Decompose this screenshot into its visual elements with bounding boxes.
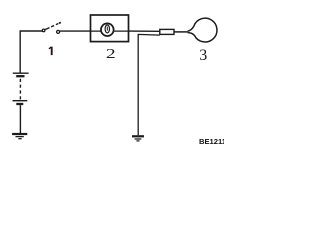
wire from sleeve to bulb 3 [174, 31, 188, 33]
connector sleeve on bulb 3 lead [160, 29, 174, 34]
svg-text:BE1211: BE1211 [199, 137, 224, 146]
ground (battery side) bar 2 [16, 136, 24, 138]
ground (battery side) bar 3 [18, 138, 21, 140]
switch 1 blade tip [59, 21, 61, 24]
label 1 (switch) : drawn glyph, stem [51, 47, 53, 55]
lamp 2 filament loop [105, 25, 109, 33]
wire through housing [91, 30, 129, 32]
wire from housing 2 to connector sleeve [129, 30, 160, 32]
ground (battery side) bar 1 [12, 133, 27, 135]
switch 1 blade (solid root segment) [45, 28, 49, 30]
lamp 2 filament inner mark [106, 27, 108, 31]
switch 1 left contact [42, 29, 45, 32]
wire from switch to lamp housing 2 [60, 30, 91, 32]
battery B dashed middle (omitted cells) [19, 79, 21, 100]
switch 1 right contact [57, 30, 60, 33]
svg-text:2: 2 [106, 46, 116, 62]
battery B plate short thick (cell 1 -) [16, 75, 24, 77]
wire from battery negative to ground [19, 105, 21, 133]
ground branch wire: corner, runs to sleeve and down to ground [138, 34, 160, 135]
battery B plate long (cell 1 +) [13, 72, 29, 74]
battery B plate long (cell 2 +) [13, 100, 28, 102]
ground (lamp side) bar 3 [136, 140, 139, 142]
bulb 3 ball with open neck [188, 18, 217, 42]
ground (lamp side) bar 1 [132, 135, 144, 137]
switch 1 blade dashed travel [51, 24, 58, 27]
ground (lamp side) bar 2 [135, 138, 142, 140]
lamp 2 bulb circle [101, 23, 114, 36]
battery B plate short thick (cell 2 -) [16, 103, 23, 105]
wire from battery positive up and right to switch [20, 31, 42, 73]
lamp housing box 2 [91, 15, 129, 42]
svg-text:3: 3 [199, 47, 207, 64]
label 1 (switch) : drawn glyph, flag [49, 47, 52, 49]
